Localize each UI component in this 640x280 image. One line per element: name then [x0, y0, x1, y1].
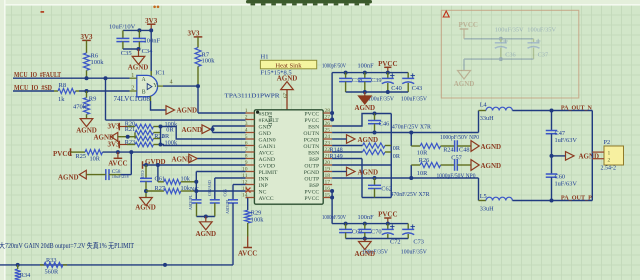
wire to GAIN1 pin 6	[161, 145, 246, 146]
wire R27 to pin 13 NC	[196, 190, 245, 192]
junction (cap gnd)	[137, 47, 141, 51]
capacitor C60	[551, 156, 553, 174]
svg-text:NC: NC	[190, 186, 199, 193]
svg-text:PVCC: PVCC	[459, 21, 478, 29]
junction (C34 top)	[137, 28, 141, 32]
junction (AVCC sym)	[116, 150, 120, 154]
junction (Y/R7)	[196, 84, 200, 88]
svg-text:大720mV GAIN 20dB output=7.2V 失: 大720mV GAIN 20dB output=7.2V 失真1% 无PLIMI…	[0, 241, 135, 250]
wire 3V3 cap rail	[123, 29, 151, 31]
ground AGND (gate)	[166, 106, 175, 115]
wire gain join vertical	[160, 127, 162, 145]
svg-text:15: 15	[325, 193, 331, 199]
svg-text:H1: H1	[261, 54, 269, 61]
junction (PLIMIT/C61)	[194, 180, 198, 184]
svg-text:C73: C73	[413, 238, 424, 245]
resistor R23	[135, 142, 154, 147]
pin 2 of P2	[592, 158, 604, 160]
pin 12 of U1 (INP)	[246, 184, 255, 186]
svg-text:C46: C46	[379, 120, 390, 127]
wire cap gnd join	[197, 216, 215, 218]
svg-text:ASD/JPL: ASD/JPL	[188, 194, 193, 210]
pin 24 of U1 (PGND)	[323, 138, 332, 140]
junction (C47/C60 mid)	[550, 154, 554, 158]
svg-text:OUTN: OUTN	[303, 131, 319, 137]
wire 3V3 down to gate VCC	[150, 30, 152, 71]
svg-text:100nF: 100nF	[358, 63, 375, 70]
svg-text:PGND: PGND	[304, 137, 320, 143]
svg-text:25: 25	[325, 128, 331, 134]
wire to connector	[591, 111, 593, 201]
svg-text:17: 17	[325, 180, 331, 186]
wire cap bank top	[332, 72, 408, 74]
wire BSP bottom	[362, 197, 391, 199]
svg-text:AGND: AGND	[177, 107, 198, 115]
svg-text:1000pF/50V NP0: 1000pF/50V NP0	[440, 135, 479, 141]
capacitor C58	[105, 169, 107, 180]
capacitor C64 (INN)	[210, 199, 220, 201]
svg-text:C37: C37	[538, 52, 549, 59]
junction (gain bottom)	[159, 143, 163, 147]
resistor R22	[135, 136, 154, 141]
svg-text:1uF/63V: 1uF/63V	[555, 181, 578, 188]
svg-text:0R: 0R	[393, 154, 401, 160]
svg-text:12: 12	[242, 180, 248, 186]
svg-text:10R: 10R	[417, 170, 428, 177]
pin 25 of U1 (OUTN)	[323, 132, 332, 134]
resistor R34	[17, 265, 19, 269]
pin 16 of U1 (PVCC)	[323, 190, 332, 192]
faded selection frame	[441, 10, 579, 98]
svg-text:100nF: 100nF	[144, 38, 161, 45]
svg-text:AGND: AGND	[481, 162, 502, 170]
wire MCU_IO_#SD	[13, 90, 54, 92]
pin 14 of U1 (AVCC)	[246, 197, 255, 199]
svg-text:C57: C57	[451, 155, 462, 162]
svg-text:PVCC: PVCC	[304, 118, 319, 124]
svg-text:100uF/35V: 100uF/35V	[527, 27, 556, 34]
svg-text:4: 4	[170, 79, 173, 85]
pin 11 of U1 (INN)	[246, 177, 255, 179]
ground AGND (C48)	[471, 141, 479, 152]
capacitor C34	[138, 30, 140, 38]
junction (outp)	[409, 176, 413, 180]
svg-text:INN: INN	[259, 176, 269, 182]
svg-text:ASD/JPL: ASD/JPL	[225, 198, 230, 214]
wire MCU_IO_#FAULT	[13, 77, 130, 79]
junction (R9/SD)	[85, 89, 89, 93]
svg-text:AGND: AGND	[454, 80, 475, 88]
svg-text:PGND: PGND	[304, 170, 320, 176]
capacitor C66 (INP)	[228, 199, 238, 201]
wire INP pin 12	[233, 184, 246, 186]
ground AGND (C59)	[140, 198, 153, 206]
junction (GVDD/R31)	[156, 163, 160, 167]
junction (outn)	[409, 131, 413, 135]
junction (C60 bottom)	[550, 199, 554, 203]
wire OUTN pin 25	[332, 132, 478, 134]
stray red tick	[41, 11, 45, 13]
faded wire top	[464, 38, 534, 40]
power AVCC (down bar)	[117, 152, 119, 158]
IC U1 TPA3111D1PWPR body	[254, 110, 323, 204]
faded ground AGND	[463, 59, 465, 70]
junction (C46 top)	[373, 112, 377, 116]
capacitor C73	[407, 224, 409, 230]
svg-text:100uF/35V: 100uF/35V	[401, 248, 427, 255]
faded capacitor C36	[500, 39, 502, 43]
sheet edge band left	[0, 0, 4, 280]
svg-text:3: 3	[245, 121, 248, 127]
svg-text:33uH: 33uH	[480, 206, 494, 213]
svg-text:10R: 10R	[90, 156, 101, 163]
svg-text:100uF/35V: 100uF/35V	[495, 27, 524, 34]
ground AGND (input caps)	[205, 217, 207, 222]
pin 19 of U1 (PGND)	[323, 171, 332, 173]
svg-text:100k: 100k	[91, 59, 105, 66]
pin 17 of U1 (BSP)	[323, 184, 332, 186]
svg-text:R34: R34	[20, 272, 31, 279]
svg-text:1000pF/50V: 1000pF/50V	[322, 63, 346, 70]
junction (C62 top)	[373, 176, 377, 180]
pin 10 of U1 (PLIMIT)	[246, 171, 255, 173]
svg-text:19: 19	[325, 167, 331, 173]
svg-text:1: 1	[245, 108, 248, 114]
wire pin 14 AVCC	[246, 197, 248, 199]
svg-text:AGND: AGND	[354, 250, 375, 258]
capacitor C62	[374, 178, 376, 185]
svg-text:OUTP: OUTP	[304, 163, 319, 169]
resistor R7	[195, 48, 201, 67]
svg-text:16: 16	[325, 186, 331, 192]
svg-text:P2: P2	[604, 139, 611, 146]
svg-text:1000pF/50V NP0: 1000pF/50V NP0	[437, 174, 476, 180]
svg-text:AGND: AGND	[354, 104, 375, 112]
svg-text:C43: C43	[412, 85, 423, 92]
wire BSN pin 26	[332, 114, 391, 127]
svg-text:AVCC: AVCC	[238, 250, 257, 258]
svg-text:6: 6	[245, 141, 248, 147]
red marker	[443, 11, 449, 17]
pin 18 of U1 (OUTP)	[323, 177, 332, 179]
svg-text:AGND: AGND	[58, 174, 79, 182]
svg-text:GAIN0: GAIN0	[259, 137, 276, 143]
capacitor C40	[387, 73, 389, 79]
capacitor C59	[145, 165, 147, 178]
svg-text:74LVC1G08: 74LVC1G08	[114, 96, 151, 103]
svg-text:100k: 100k	[202, 58, 216, 65]
faded capacitor C37	[533, 39, 535, 43]
junction (gain top)	[159, 125, 163, 129]
svg-text:AGND: AGND	[259, 157, 275, 163]
wire gate gnd	[151, 101, 167, 110]
svg-text:C60: C60	[555, 174, 566, 181]
ground AGND (below R9)	[80, 119, 93, 127]
svg-text:C64/ASD: C64/ASD	[207, 180, 212, 196]
junction (FAULT branch)	[104, 76, 108, 80]
pin 8 of U1 (AGND)	[246, 158, 255, 160]
pin 4 of U1 (GND)	[246, 132, 255, 134]
svg-text:C63: C63	[140, 171, 145, 179]
svg-text:0R: 0R	[393, 146, 401, 152]
svg-text:9: 9	[245, 160, 248, 166]
svg-text:BSP: BSP	[309, 183, 319, 189]
svg-text:GND: GND	[259, 124, 271, 130]
capacitor C47	[551, 111, 553, 131]
inductor L4	[478, 111, 480, 133]
ground AGND (pin 19 PGND)	[347, 167, 356, 176]
wire PLIMIT pin 10	[196, 171, 245, 173]
junction (cap gnd)	[204, 215, 208, 219]
svg-text:R26: R26	[419, 157, 430, 164]
svg-text:C40: C40	[391, 85, 402, 92]
wire PA_OUT_N	[512, 110, 592, 112]
svg-text:R24: R24	[443, 146, 454, 153]
svg-text:PVCC: PVCC	[304, 189, 319, 195]
svg-text:2.54-2: 2.54-2	[601, 166, 617, 172]
pin 2 of IC1	[130, 90, 137, 92]
junctions bank2	[344, 222, 348, 226]
svg-text:33uH: 33uH	[480, 115, 494, 122]
pin 23 of U1 (OUTN)	[323, 145, 332, 147]
svg-text:8: 8	[245, 154, 248, 160]
power AVCC (below R29)	[243, 247, 252, 249]
junction (3V3 rail)	[149, 28, 153, 32]
wire INN pin 11	[215, 177, 246, 179]
wire PA_OUT_P	[512, 200, 592, 202]
no-connect X on pin 13	[246, 188, 251, 193]
svg-text:R21: R21	[125, 126, 136, 133]
svg-text:2: 2	[131, 86, 134, 92]
svg-text:PVCC: PVCC	[304, 111, 319, 117]
svg-text:20: 20	[325, 160, 331, 166]
wire FAULT to pin 2	[105, 78, 107, 120]
leads right join	[154, 126, 161, 128]
wire OUTP pin 20	[331, 164, 333, 166]
wire AGND pin8	[197, 158, 245, 160]
stray orange marks	[153, 6, 156, 9]
svg-text:R8: R8	[59, 82, 67, 89]
svg-text:13: 13	[242, 186, 248, 192]
svg-text:GND: GND	[259, 131, 271, 137]
junction (C58 branch)	[129, 150, 133, 154]
resistor R6	[84, 53, 90, 70]
svg-text:AGND: AGND	[182, 126, 203, 134]
svg-text:B: B	[142, 90, 146, 96]
svg-text:26: 26	[325, 121, 331, 127]
svg-text:OUTP: OUTP	[304, 176, 319, 182]
lead R21-R22 left join	[134, 133, 136, 139]
junction (C46 bottom)	[373, 131, 377, 135]
capacitor C57	[454, 159, 456, 171]
capacitor C46	[374, 114, 376, 121]
svg-text:100uF/35V: 100uF/35V	[401, 95, 427, 102]
pin 29 EPAD wire	[286, 90, 288, 110]
svg-text:C35: C35	[121, 50, 132, 57]
svg-text:Heat Sink: Heat Sink	[275, 62, 302, 69]
svg-text:#SD: #SD	[259, 111, 269, 117]
svg-text:5: 5	[245, 134, 248, 140]
pin 4 of IC1 (output)	[157, 85, 163, 87]
pin 15 of U1 (PVCC)	[323, 197, 332, 199]
pin 3 of IC1 (gnd)	[150, 96, 152, 101]
svg-text:AGND: AGND	[579, 153, 600, 161]
ground AGND (C57)	[471, 160, 479, 171]
pin 7 of U1 (AVCC)	[246, 151, 255, 153]
wire cap bottoms	[123, 48, 139, 50]
wire INP down to audio input	[232, 203, 234, 265]
svg-text:1: 1	[608, 151, 611, 157]
wire gate output	[163, 85, 198, 87]
pin 6 of U1 (GAIN1)	[246, 145, 255, 147]
resistor R24 snubber	[410, 133, 412, 147]
ground AGND (bank2)	[364, 239, 366, 242]
wire cap bank2 top	[332, 223, 408, 225]
wire to GAIN0 pin 5	[161, 127, 246, 140]
wire BSN-BSP vertical	[390, 114, 392, 198]
inductor L5	[478, 178, 480, 201]
svg-text:GAIN1: GAIN1	[259, 144, 276, 150]
pin 21 of U1 (BSP)	[323, 158, 332, 160]
svg-text:AGND: AGND	[195, 230, 216, 238]
svg-text:560R: 560R	[45, 269, 59, 276]
wire Y to pin 1 #SD	[197, 86, 199, 113]
faded wire bottom	[464, 58, 534, 60]
svg-text:1k: 1k	[58, 96, 65, 103]
svg-text:1: 1	[131, 73, 134, 79]
svg-text:10uF/10V: 10uF/10V	[109, 24, 136, 31]
junction (input wire)	[163, 263, 167, 267]
svg-text:29: 29	[282, 93, 288, 99]
junction (GVDD/C59)	[144, 163, 148, 167]
svg-text:BSN: BSN	[308, 150, 319, 156]
svg-text:470nF/25V X7R: 470nF/25V X7R	[391, 191, 431, 198]
pin 28 of U1 (PVCC)	[323, 112, 332, 114]
svg-text:3V3: 3V3	[108, 123, 121, 131]
pin 5 of U1 (GAIN0)	[246, 138, 255, 140]
svg-text:R29: R29	[251, 210, 261, 217]
ground AGND (output mid)	[566, 152, 575, 161]
svg-text:PA_OUT_P: PA_OUT_P	[561, 195, 592, 202]
resistor R9	[86, 91, 88, 98]
junction (agnd feed)	[126, 135, 130, 139]
wire cap bank2 bottom	[346, 238, 409, 240]
pin 1 of IC1	[130, 77, 137, 79]
wire to AGND mid	[552, 155, 566, 157]
ground AGND (pin 24 PGND)	[347, 135, 356, 144]
svg-text:10R: 10R	[417, 149, 428, 156]
wire OUTP pin 18	[332, 177, 478, 179]
svg-text:470nF/25V X7R: 470nF/25V X7R	[392, 124, 432, 131]
svg-text:PLIMIT: PLIMIT	[259, 170, 278, 176]
svg-text:18: 18	[325, 173, 331, 179]
svg-text:C66: C66	[223, 188, 228, 196]
junction (R27/NC)	[194, 189, 198, 193]
svg-text:AGND: AGND	[128, 64, 149, 72]
svg-text:2: 2	[608, 158, 611, 164]
wire BSP pin 21	[332, 158, 362, 160]
resistor R20	[135, 124, 154, 129]
junction (gnd pins)	[211, 127, 215, 131]
svg-text:L4: L4	[480, 102, 488, 109]
svg-text:24: 24	[325, 134, 331, 140]
svg-text:23: 23	[325, 141, 331, 147]
wire down to C58	[130, 152, 132, 175]
svg-text:1uF/63V: 1uF/63V	[555, 137, 578, 144]
junction (C47)	[550, 109, 554, 113]
svg-text:C48: C48	[459, 146, 470, 153]
svg-text:27: 27	[325, 115, 331, 121]
svg-text:#FAULT: #FAULT	[259, 118, 280, 124]
capacitor C43	[407, 73, 409, 79]
svg-text:100uF/35V: 100uF/35V	[368, 95, 394, 102]
svg-text:OUTN: OUTN	[303, 144, 319, 150]
svg-text:C39: C39	[371, 77, 382, 84]
junction (R34)	[16, 263, 20, 267]
svg-text:C34: C34	[142, 48, 154, 55]
svg-text:C36: C36	[505, 52, 516, 59]
wire PVCC rail (pins 27-28)	[331, 113, 333, 120]
svg-text:R9: R9	[89, 96, 97, 103]
svg-text:C47: C47	[555, 130, 566, 137]
pin 20 of U1 (OUTP)	[323, 164, 332, 166]
pin 9 of U1 (GVDD)	[246, 164, 255, 166]
svg-text:INP: INP	[259, 183, 268, 189]
svg-text:10: 10	[242, 167, 248, 173]
svg-text:AVCC: AVCC	[259, 196, 274, 202]
junction (R6/FAULT)	[85, 76, 89, 80]
svg-text:AGND: AGND	[135, 204, 156, 212]
wire SD to gate pin B	[79, 90, 130, 92]
pin 22 of U1 (BSN)	[323, 151, 332, 153]
wire gnd pins 3-4	[211, 128, 213, 130]
svg-text:NC: NC	[259, 189, 267, 195]
pin 1 of U1 (#SD)	[246, 112, 255, 114]
pin 26 of U1 (BSN)	[323, 125, 332, 127]
svg-text:PVCC: PVCC	[304, 196, 319, 202]
svg-text:AGND: AGND	[358, 168, 379, 176]
svg-text:AVCC: AVCC	[259, 150, 274, 156]
cropped component edge at top	[246, 0, 372, 3]
svg-text:C72: C72	[390, 238, 401, 245]
svg-text:2: 2	[245, 115, 248, 121]
junction (C59/R27)	[144, 189, 148, 193]
svg-text:IC1: IC1	[155, 69, 165, 76]
svg-text:AGND: AGND	[481, 143, 502, 151]
pin 3 of U1 (GND)	[246, 125, 255, 127]
svg-text:PVCC: PVCC	[53, 150, 72, 158]
wire cap bank bottom	[346, 91, 409, 93]
wire PVCC rail (pins 15-16)	[330, 189, 334, 193]
junction marks top bank	[344, 71, 348, 75]
svg-text:BSN: BSN	[308, 124, 319, 130]
svg-text:1000pF/50V: 1000pF/50V	[322, 214, 346, 221]
capacitor C48	[454, 140, 456, 152]
svg-text:28: 28	[325, 108, 331, 114]
svg-text:GVDD: GVDD	[259, 163, 275, 169]
wire AVCC row to pin 7	[103, 151, 246, 153]
wire GVDD branch down	[157, 165, 159, 182]
resistor R26 snubber	[410, 165, 412, 178]
sheet edge band top	[0, 0, 640, 4]
svg-text:11: 11	[242, 173, 248, 179]
svg-text:14: 14	[242, 193, 248, 199]
svg-text:100k: 100k	[251, 217, 264, 224]
ground AGND (cap bank)	[364, 92, 366, 96]
svg-text:L5: L5	[480, 193, 487, 200]
svg-text:TPA3111D1PWPR: TPA3111D1PWPR	[225, 93, 281, 100]
capacitor C72	[387, 224, 389, 230]
